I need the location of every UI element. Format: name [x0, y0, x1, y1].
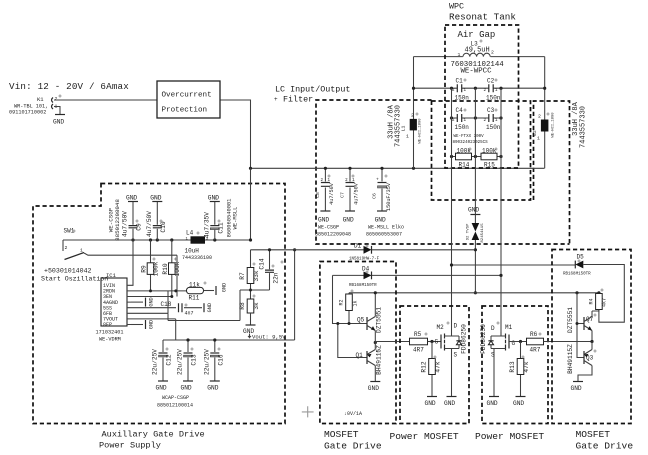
svg-text:C3: C3: [487, 107, 495, 114]
svg-text:22n: 22n: [273, 272, 280, 283]
svg-text:S: S: [491, 352, 495, 359]
wire VOUT column: [131, 319, 176, 340]
svg-text:865060553007: 865060553007: [366, 232, 402, 238]
svg-text:GND: GND: [444, 400, 455, 407]
ground C6: [375, 211, 387, 224]
wire D1 rail: [251, 249, 476, 251]
resistor R4: [589, 293, 608, 311]
svg-text:BH49115Z: BH49115Z: [376, 345, 383, 375]
svg-text:GND: GND: [571, 385, 582, 392]
svg-text:M2: M2: [437, 324, 445, 331]
ground C8: [318, 211, 330, 224]
resistor R5: [410, 331, 442, 354]
capacitor C2: [484, 78, 501, 102]
svg-text:4u7/50V: 4u7/50V: [146, 211, 153, 237]
node R4 top: [597, 291, 600, 294]
ground R11: [216, 283, 228, 295]
svg-text:GND: GND: [368, 385, 379, 392]
node base stub: [576, 322, 579, 325]
svg-text:D5: D5: [577, 254, 585, 261]
svg-text:L4: L4: [186, 230, 194, 237]
svg-text:GND: GND: [207, 303, 213, 312]
svg-text:150n: 150n: [486, 95, 501, 102]
svg-text:GND: GND: [149, 320, 155, 329]
svg-text:3k: 3k: [253, 302, 260, 310]
inductor L1: [388, 57, 423, 169]
svg-text:22u/25V: 22u/25V: [177, 349, 184, 375]
svg-text:C4: C4: [456, 107, 464, 114]
svg-text:Power MOSFET: Power MOSFET: [390, 431, 459, 442]
svg-text:C18: C18: [161, 301, 172, 308]
svg-text:R7: R7: [239, 272, 246, 280]
svg-text:WE-WPCC: WE-WPCC: [461, 68, 493, 76]
ground C18: [204, 303, 213, 312]
svg-text:C14: C14: [259, 258, 266, 269]
svg-text:091101710002: 091101710002: [9, 110, 46, 116]
svg-text:22u/25V: 22u/25V: [152, 349, 159, 375]
diode D4: [349, 266, 377, 289]
node drain/D5 rail: [450, 263, 453, 266]
wire Vout riser: [294, 250, 296, 340]
svg-text:DZT5551: DZT5551: [376, 307, 383, 333]
wire overcurrent to node down: [220, 100, 251, 168]
svg-text:GND: GND: [513, 400, 524, 407]
wire SW1 to EN: [176, 255, 178, 296]
ground C7: [343, 211, 355, 224]
node R2 base rail: [348, 322, 351, 325]
svg-text:Filter: Filter: [283, 95, 313, 105]
wire K1 pin2 to overcurrent: [54, 99, 157, 101]
capacitor C14: [259, 250, 280, 290]
resistor R10: [131, 240, 181, 297]
wire gate output to R5: [375, 342, 409, 343]
svg-text:GND: GND: [149, 297, 155, 306]
wire right base column: [577, 293, 584, 358]
svg-text:Protection: Protection: [162, 107, 208, 115]
svg-text:C16: C16: [217, 354, 224, 365]
wire D4 rail: [333, 274, 502, 276]
svg-text:Q3: Q3: [586, 355, 594, 362]
node TVS/D1-rail: [474, 248, 477, 251]
svg-text:4R7: 4R7: [530, 347, 541, 354]
wire L1 top to L3: [414, 56, 463, 58]
capacitor C9: [122, 202, 143, 240]
svg-text:7443557330: 7443557330: [395, 105, 403, 147]
node riser/D1 rail: [293, 248, 296, 251]
node row-bot right: [499, 155, 502, 158]
svg-text:WE-MSLL: WE-MSLL: [233, 207, 239, 230]
svg-text:RB168M150TR: RB168M150TR: [349, 284, 377, 288]
svg-text:2: 2: [538, 114, 541, 120]
wire VIN up to bus: [131, 240, 133, 285]
svg-text:7443557330: 7443557330: [580, 106, 588, 148]
ground EP: [131, 320, 155, 329]
svg-text:R15: R15: [484, 162, 495, 169]
node M2 gate: [430, 340, 433, 343]
svg-text:MOSFET: MOSFET: [576, 429, 611, 440]
switch SW1: [63, 228, 177, 260]
node bus C13: [186, 338, 189, 341]
svg-text:150n: 150n: [455, 124, 470, 131]
wire L3 to L2 top: [491, 56, 545, 58]
marker plus: [302, 406, 314, 417]
node FB divider: [249, 289, 252, 292]
svg-text:C11: C11: [217, 222, 224, 233]
node aux bus C10: [156, 238, 159, 241]
svg-text:8EP: 8EP: [103, 322, 112, 328]
node L1 column: [412, 87, 415, 90]
node row-mid left: [450, 116, 453, 119]
ground M2 source: [444, 397, 457, 408]
svg-text:R9: R9: [141, 265, 148, 273]
ground C10: [150, 195, 162, 202]
node aux bus C9: [131, 238, 134, 241]
node RDN rail: [174, 289, 177, 292]
capacitor C6 electrolytic: [372, 167, 392, 211]
svg-text:2: 2: [55, 96, 58, 102]
ground R13: [513, 397, 526, 408]
svg-text:R2: R2: [339, 299, 345, 305]
right MOSFET gate drive dashed box: [552, 250, 631, 424]
node gate drive output: [374, 341, 377, 344]
svg-text:GND: GND: [156, 385, 167, 392]
svg-text:GND: GND: [207, 385, 218, 392]
svg-text:47k: 47k: [523, 361, 530, 372]
ground Q3: [571, 382, 584, 393]
wire TVS column to rails: [474, 250, 476, 293]
svg-text:M1: M1: [505, 324, 513, 331]
svg-text:GND: GND: [181, 385, 192, 392]
capacitor C11 electrolytic: [203, 202, 224, 240]
node base tie: [336, 322, 339, 325]
svg-text:Q1: Q1: [356, 352, 364, 359]
svg-text:C10: C10: [160, 221, 167, 232]
wire R11 to FB node: [167, 291, 169, 313]
wire FB: [131, 290, 270, 321]
svg-text:GND: GND: [468, 207, 479, 214]
wire aux bus: [63, 239, 251, 241]
svg-text:Auxillary Gate Drive: Auxillary Gate Drive: [102, 430, 205, 440]
svg-text:Gate Drive: Gate Drive: [324, 441, 382, 452]
svg-text:4R7: 4R7: [413, 347, 424, 354]
svg-text:WE-HCI_1890: WE-HCI_1890: [552, 112, 556, 138]
wire RDN/R11 rail: [131, 290, 187, 292]
power MOSFET A dashed box: [400, 306, 469, 424]
TVS diode D2: [467, 215, 486, 250]
wire D5 rail: [452, 264, 576, 266]
svg-text:GND: GND: [343, 217, 354, 224]
svg-text:D: D: [454, 323, 458, 330]
svg-text:890324023025CS: 890324023025CS: [453, 141, 489, 145]
node row-bot mid: [474, 155, 477, 158]
svg-text:R11: R11: [189, 295, 200, 302]
svg-text:C8: C8: [315, 192, 321, 198]
node Q5 collector rail: [374, 291, 377, 294]
resistor R2: [339, 293, 359, 324]
svg-text:100k: 100k: [153, 261, 160, 276]
svg-text:Power Supply: Power Supply: [99, 441, 161, 451]
svg-text:K1: K1: [37, 96, 44, 103]
ground tank mid: [468, 207, 480, 215]
wire main bus 12V: [251, 167, 545, 169]
node bus C16: [213, 338, 216, 341]
svg-text:MOSFET: MOSFET: [324, 429, 359, 440]
ground C9: [126, 195, 138, 202]
node row-mid right: [499, 116, 502, 119]
mosfet M1: [480, 324, 516, 396]
resistor R15: [475, 148, 501, 169]
node aux bus corner: [249, 238, 252, 241]
svg-text:G: G: [435, 339, 439, 346]
svg-text:150n: 150n: [486, 124, 501, 131]
svg-text:C6: C6: [372, 193, 378, 199]
svg-text:Q7: Q7: [586, 316, 594, 323]
svg-text:BH49115Z: BH49115Z: [567, 344, 574, 374]
svg-text:2: 2: [65, 245, 68, 251]
svg-text:885012208048: 885012208048: [114, 199, 121, 241]
ground M1 source: [487, 397, 500, 408]
svg-text:GND: GND: [318, 217, 329, 224]
svg-text:4u7/50V: 4u7/50V: [354, 182, 360, 205]
svg-text:L2: L2: [532, 130, 538, 136]
connector K1: [9, 96, 58, 116]
svg-text:1: 1: [458, 52, 461, 58]
svg-text:WPC: WPC: [449, 2, 464, 12]
svg-text:WCAP-CSGP: WCAP-CSGP: [162, 395, 189, 401]
ground K1: [53, 115, 65, 126]
svg-text:R8: R8: [239, 302, 246, 310]
svg-text:7443336100: 7443336100: [182, 255, 212, 261]
svg-text:2: 2: [411, 113, 414, 119]
svg-text:GND: GND: [375, 217, 386, 224]
wire tank left column: [451, 88, 453, 336]
wire AGND: [131, 301, 143, 303]
capacitor C8: [315, 167, 335, 211]
svg-text:Power MOSFET: Power MOSFET: [475, 431, 544, 442]
wire tank row mid: [452, 117, 502, 119]
svg-text:Gate Drive: Gate Drive: [576, 441, 634, 452]
wire K1 pin1 to ground: [54, 107, 60, 115]
resistor R14: [452, 148, 476, 169]
node row-top L2: [543, 87, 546, 90]
svg-text:WE-FTXX 300V: WE-FTXX 300V: [454, 135, 485, 139]
svg-text:R4: R4: [589, 298, 595, 304]
svg-text:C1: C1: [456, 78, 464, 85]
L2 dashed box: [534, 101, 570, 244]
capacitor C12: [152, 340, 173, 381]
svg-text:D1: D1: [354, 243, 362, 250]
svg-text:GND: GND: [487, 400, 498, 407]
coupling dashed box: [432, 101, 531, 200]
svg-text:WE-VDRM: WE-VDRM: [99, 337, 121, 343]
node aux bus R10: [170, 238, 173, 241]
node TVS/R2-rail: [474, 291, 477, 294]
svg-text:+: +: [274, 96, 278, 103]
svg-text:↓0V/1A: ↓0V/1A: [344, 411, 362, 417]
svg-text:22u/25V: 22u/25V: [203, 349, 210, 375]
node C14 tap: [268, 248, 271, 251]
WPC resonant tank dashed box (air gap): [445, 25, 519, 168]
svg-text:171032401: 171032401: [96, 330, 124, 336]
svg-text:S: S: [454, 352, 458, 359]
origin markers: [58, 39, 603, 358]
inductor L4: [182, 230, 212, 262]
svg-text:IC1: IC1: [106, 272, 117, 279]
ground C13: [181, 381, 194, 392]
transistor Q7: [567, 307, 594, 342]
svg-text:GND: GND: [222, 283, 228, 292]
svg-text:2: 2: [491, 50, 494, 56]
svg-text:WE-CSGP: WE-CSGP: [318, 225, 339, 231]
svg-text:D4: D4: [362, 266, 370, 273]
left MOSFET gate drive dashed box: [320, 262, 396, 424]
svg-text:1k: 1k: [352, 300, 358, 306]
svg-text:C9: C9: [136, 223, 143, 231]
capacitor C18: [161, 301, 203, 317]
svg-text:Resonat Tank: Resonat Tank: [449, 12, 516, 23]
wire tank mid column: [474, 88, 476, 214]
LC filter dashed box: [316, 100, 570, 244]
capacitor C13: [177, 340, 198, 381]
svg-text:LC Input/Output: LC Input/Output: [275, 85, 350, 95]
svg-text:+50301014042: +50301014042: [44, 268, 92, 275]
wire Vout bus: [163, 339, 295, 341]
svg-text:R13: R13: [509, 361, 516, 372]
inductor L2: [532, 57, 588, 169]
wire tank row top: [414, 87, 545, 89]
svg-text:4u7/50V: 4u7/50V: [122, 211, 129, 237]
svg-text:D2 TVSP: D2 TVSP: [467, 223, 471, 240]
svg-text:Vin: 12 - 20V / 6Amax: Vin: 12 - 20V / 6Amax: [9, 81, 129, 92]
svg-text:1: 1: [80, 248, 83, 254]
svg-text:C7: C7: [340, 192, 346, 198]
wire Q7 base stub: [577, 323, 584, 325]
capacitor C1: [452, 78, 469, 102]
svg-text:4n7: 4n7: [185, 311, 194, 317]
svg-text:R12: R12: [421, 361, 428, 372]
resistor R9: [141, 240, 160, 291]
resistor R11: [187, 282, 215, 302]
svg-text:+: +: [376, 178, 379, 183]
node aux bus C11: [213, 238, 216, 241]
svg-text:R10: R10: [162, 263, 169, 274]
ground Q1: [368, 382, 381, 393]
svg-text:Start Oszillation: Start Oszillation: [41, 276, 108, 283]
IC U1 WE-VDRM: [96, 272, 132, 343]
svg-text:33k: 33k: [253, 270, 260, 281]
capacitor C16: [203, 340, 224, 381]
inductor L3: [451, 41, 505, 76]
svg-text:RB168M150TR: RB168M150TR: [563, 273, 591, 277]
svg-text:Overcurrent: Overcurrent: [162, 92, 212, 100]
svg-text:4u7/50V: 4u7/50V: [329, 182, 335, 205]
svg-text:82454115: 82454115: [481, 223, 485, 243]
node EN/R10: [170, 295, 173, 298]
wire base rail left: [333, 275, 368, 323]
wire base tie: [338, 324, 367, 358]
node bus/overcurrent: [249, 167, 252, 170]
transistor Q3: [567, 342, 594, 382]
diode D1: [349, 243, 380, 262]
ground C11: [208, 195, 220, 202]
svg-text:WE-HCI_1890: WE-HCI_1890: [419, 118, 423, 144]
resistor R7: [239, 250, 260, 299]
wire M1 gate: [509, 341, 527, 343]
svg-text:FDD86250: FDD86250: [460, 324, 467, 354]
svg-text:C13: C13: [191, 354, 198, 365]
node M1 gate: [519, 340, 522, 343]
auxiliary supply dashed box: [33, 184, 285, 424]
svg-text:FDD86250: FDD86250: [480, 324, 487, 354]
wire D5 loop: [583, 265, 624, 323]
wire tank right column: [500, 88, 502, 336]
svg-text:C2: C2: [487, 78, 495, 85]
power MOSFET B dashed box: [482, 306, 548, 424]
svg-text:GND: GND: [53, 119, 64, 126]
node row-bot left: [450, 155, 453, 158]
capacitor C10: [146, 202, 167, 240]
mosfet M2: [435, 323, 468, 397]
svg-text:150uF/35V: 150uF/35V: [386, 182, 392, 211]
resistor R8: [239, 299, 260, 325]
svg-text:885012209048: 885012209048: [315, 232, 351, 238]
resistor R12: [421, 342, 442, 397]
node row-top right: [499, 87, 502, 90]
ground C12: [156, 381, 169, 392]
capacitor C7: [340, 167, 360, 211]
ground R12: [425, 397, 438, 408]
svg-text:1: 1: [406, 134, 409, 140]
svg-text:150n: 150n: [455, 95, 470, 102]
node bus/L1: [412, 167, 415, 170]
node row-top mid: [474, 87, 477, 90]
transistor Q5: [357, 293, 383, 343]
node row-top left: [450, 87, 453, 90]
ground C16: [207, 381, 220, 392]
resistor R6: [527, 331, 593, 354]
svg-text:885012100014: 885012100014: [157, 403, 193, 409]
ground R8: [243, 325, 256, 335]
diode D5: [563, 254, 591, 277]
overcurrent protection box: [157, 81, 220, 118]
svg-text:R6: R6: [530, 331, 538, 338]
resistor R13: [509, 342, 530, 397]
svg-text:WE-MSLL Elko: WE-MSLL Elko: [368, 225, 404, 231]
wire SS to C18: [131, 307, 176, 309]
node row-mid mid: [474, 116, 477, 119]
wire R2 top rail: [349, 292, 599, 294]
svg-text:C12: C12: [166, 354, 173, 365]
node D4 rail/M1 drain: [499, 274, 502, 277]
svg-text:4u7/35V: 4u7/35V: [203, 212, 210, 238]
ground AGND: [146, 297, 155, 306]
node aux bus R9: [149, 238, 152, 241]
capacitor C4: [452, 107, 469, 131]
svg-text:D: D: [491, 325, 495, 332]
svg-text:GND: GND: [425, 400, 436, 407]
capacitor C3: [484, 107, 501, 131]
svg-text:Q5: Q5: [357, 317, 365, 324]
svg-text:R14: R14: [459, 162, 470, 169]
transistor Q1: [356, 343, 383, 382]
svg-text:10uH: 10uH: [185, 248, 200, 255]
node right output: [590, 340, 593, 343]
svg-text:R5: R5: [414, 331, 422, 338]
svg-text:47k: 47k: [434, 361, 441, 372]
svg-text:4k7: 4k7: [602, 298, 608, 307]
node rail right box: [575, 291, 578, 294]
svg-text:Vout: 9,5V: Vout: 9,5V: [252, 334, 286, 341]
